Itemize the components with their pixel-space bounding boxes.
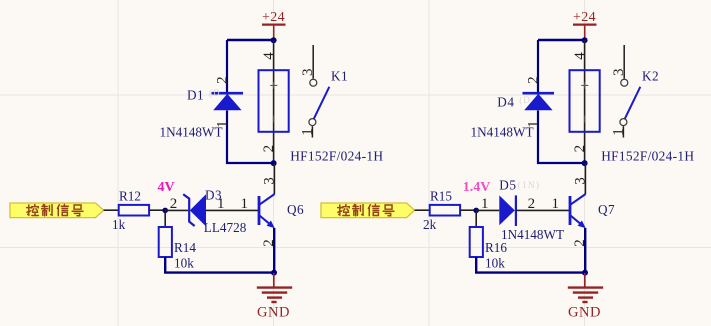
wire R15 to node	[460, 209, 476, 211]
wire D5 to base of Q7	[516, 209, 569, 211]
wire port to R12	[104, 209, 119, 211]
diode D5 (1N4148WT)	[499, 195, 515, 225]
svg-text:1: 1	[300, 128, 316, 136]
svg-text:GND: GND	[568, 305, 601, 321]
svg-text:+24: +24	[573, 10, 596, 25]
svg-text:HF152F/024-1H: HF152F/024-1H	[601, 148, 694, 163]
wire node down to R14	[164, 210, 166, 227]
wire emitter of Q6 down to ground rail	[273, 228, 275, 273]
svg-text:Q7: Q7	[598, 202, 615, 217]
junction node at base network (right)	[473, 208, 479, 214]
wire collector of Q6 to relay junction	[273, 163, 275, 194]
svg-text:D4: D4	[497, 94, 514, 109]
svg-text:4V: 4V	[158, 180, 175, 195]
resistor R12	[119, 205, 149, 216]
svg-text:R15: R15	[430, 189, 452, 204]
svg-text:2: 2	[170, 196, 178, 212]
transistor Q6 (NPN)	[258, 196, 261, 225]
svg-text:+24: +24	[262, 10, 285, 25]
diode D1 (1N4148WT flyback)	[212, 92, 244, 95]
svg-text:1.4V: 1.4V	[463, 180, 491, 195]
wire collector of Q7 to relay junction	[584, 163, 586, 194]
wire flyback-diode branch	[537, 40, 539, 93]
resistor R14	[159, 227, 172, 257]
wire emitter of Q7 down to ground rail	[584, 228, 586, 273]
wire flyback-diode branch	[226, 40, 228, 93]
svg-text:HF152F/024-1H: HF152F/024-1H	[290, 148, 383, 163]
wire from +24 junction to flyback branch	[538, 39, 585, 41]
wire from +24 junction to flyback branch	[227, 39, 274, 41]
svg-text:(1N): (1N)	[518, 180, 541, 190]
svg-text:2: 2	[261, 145, 277, 153]
svg-text:K1: K1	[331, 69, 348, 84]
svg-text:4: 4	[572, 52, 588, 60]
svg-text:1: 1	[215, 121, 231, 129]
relay coil K1 (HF152F/024-1H)	[259, 70, 289, 132]
junction at +24 rail	[271, 37, 277, 43]
svg-text:10k: 10k	[485, 256, 505, 271]
svg-text:1: 1	[611, 128, 627, 136]
svg-text:1: 1	[551, 196, 559, 212]
svg-text:(D: (D	[519, 95, 531, 105]
svg-text:(D: (D	[209, 88, 221, 98]
svg-text:R14: R14	[174, 240, 196, 255]
relay contact K2	[623, 45, 625, 79]
svg-text:Q6: Q6	[287, 202, 304, 217]
wire node down to R16	[475, 210, 477, 227]
wire D3 to base of Q6	[206, 209, 258, 211]
svg-text:R12: R12	[119, 189, 141, 204]
svg-text:D1: D1	[187, 88, 204, 103]
wire node to diode D5	[476, 209, 499, 211]
svg-text:2: 2	[572, 145, 588, 153]
wire R14 to ground rail	[165, 257, 273, 273]
svg-text:3: 3	[300, 69, 316, 77]
wire R16 to ground rail	[476, 257, 584, 273]
junction below relay coil	[271, 160, 277, 166]
svg-text:K2: K2	[642, 69, 659, 84]
junction at +24 rail	[582, 37, 588, 43]
resistor R16	[470, 227, 483, 257]
wire R12 to node	[149, 209, 165, 211]
relay coil K2 (HF152F/024-1H)	[570, 70, 600, 132]
relay coil lead wire (pin4 to pin2) of K1	[273, 40, 275, 163]
svg-text:GND: GND	[257, 305, 290, 321]
svg-text:2: 2	[528, 196, 536, 212]
junction node at base network (left)	[162, 208, 168, 214]
port 控制信号 (right)	[321, 203, 415, 218]
relay coil lead wire (pin4 to pin2) of K2	[584, 40, 586, 163]
port 控制信号 (left)	[10, 203, 104, 218]
wire node to zener D3	[165, 209, 188, 211]
svg-text:1: 1	[481, 196, 489, 212]
svg-text:1N4148WT: 1N4148WT	[160, 124, 223, 139]
transistor Q7 (NPN)	[569, 196, 572, 225]
svg-text:3: 3	[611, 69, 627, 77]
svg-text:D5: D5	[499, 177, 516, 192]
junction at ground rail	[271, 270, 277, 276]
svg-text:10k: 10k	[174, 256, 194, 271]
ground GND (right)	[584, 273, 586, 287]
zener diode D3 (LL4728)	[183, 194, 194, 226]
diode D4 (1N4148WT flyback)	[523, 92, 555, 95]
svg-text:1: 1	[526, 121, 542, 129]
ground GND (left)	[273, 273, 275, 287]
resistor R15	[430, 205, 460, 216]
svg-text:1N4148WT: 1N4148WT	[471, 124, 534, 139]
svg-text:2: 2	[526, 76, 542, 84]
junction at ground rail	[582, 270, 588, 276]
svg-text:1N4148WT: 1N4148WT	[501, 227, 564, 242]
wire port to R15	[415, 209, 430, 211]
svg-text:2: 2	[215, 76, 231, 84]
svg-text:R16: R16	[485, 240, 507, 255]
svg-text:1: 1	[240, 196, 248, 212]
svg-text:4: 4	[261, 52, 277, 60]
svg-text:2k: 2k	[423, 217, 437, 232]
svg-text:1k: 1k	[112, 217, 126, 232]
svg-text:LL4728: LL4728	[204, 220, 247, 235]
relay contact K1	[312, 45, 314, 79]
junction below relay coil	[582, 160, 588, 166]
